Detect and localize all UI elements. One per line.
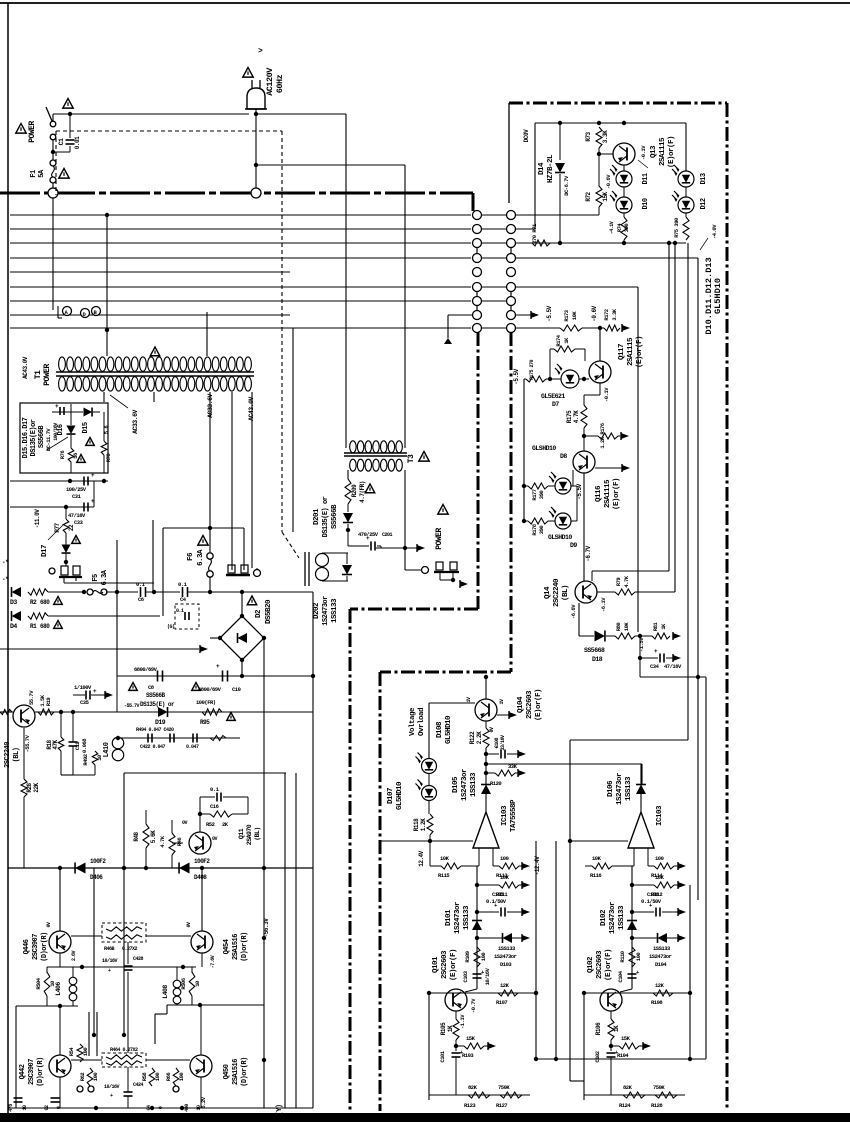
label Q11 2SA970 (BL) <box>238 824 261 845</box>
svg-text:(E)or(F): (E)or(F) <box>668 136 676 168</box>
power switch S1 <box>46 107 56 140</box>
svg-text:1V: 1V <box>466 697 472 703</box>
resistor R492 10 <box>73 751 98 775</box>
svg-text:-1.1V: -1.1V <box>459 1014 466 1029</box>
svg-text:R62: R62 <box>79 1073 86 1082</box>
warning triangle <box>243 68 253 78</box>
label R128 750K <box>651 1084 665 1109</box>
svg-text:D104: D104 <box>655 961 667 968</box>
wire bus row 3 link <box>482 242 506 244</box>
wire <box>648 862 686 870</box>
resistor R113 100 <box>499 863 519 869</box>
svg-text:0.1: 0.1 <box>176 608 184 614</box>
transistor Q101 <box>445 989 467 1011</box>
label R113 100 <box>496 855 509 879</box>
wire bridge right <box>262 638 266 1108</box>
label R58 100 <box>141 1072 161 1082</box>
svg-text:R81: R81 <box>652 622 659 632</box>
wire routing right <box>155 1003 264 1044</box>
leader D17 <box>48 525 63 540</box>
label D101 1S2473or 1SS133 <box>445 902 471 934</box>
label R104 15K <box>617 1035 631 1059</box>
svg-text:15K: 15K <box>602 191 609 201</box>
resistor R18 47K <box>58 712 64 775</box>
transistor Q14 <box>575 581 597 603</box>
wire choke <box>322 553 348 581</box>
svg-text:0.1: 0.1 <box>178 581 188 588</box>
wire <box>484 748 488 812</box>
svg-text:R110: R110 <box>619 951 626 962</box>
arrow <box>673 632 681 640</box>
svg-text:D202: D202 <box>313 602 321 619</box>
long wire x669 <box>668 243 670 571</box>
capacitor C103 <box>473 969 486 978</box>
svg-text:AC43.0V: AC43.0V <box>22 356 29 379</box>
svg-text:C105: C105 <box>492 891 504 898</box>
svg-text:100(FR): 100(FR) <box>196 699 216 706</box>
label R71 270 <box>531 223 538 244</box>
label C31 100/25V <box>66 486 87 500</box>
wire <box>516 207 599 215</box>
svg-text:1S2473or: 1S2473or <box>494 953 517 960</box>
label -0.6V <box>591 305 598 321</box>
svg-text:(D)or(R): (D)or(R) <box>41 932 49 962</box>
label 270 R175 <box>529 360 535 381</box>
svg-text:Q446: Q446 <box>23 939 31 954</box>
wire <box>476 980 478 989</box>
wire <box>516 314 531 316</box>
svg-text:C103: C103 <box>462 970 469 982</box>
wire spine2 top <box>640 764 642 812</box>
resistor R46 <box>169 833 175 855</box>
wire verticals <box>117 520 153 676</box>
circled terminal B <box>92 307 101 317</box>
wire left drop <box>516 123 535 229</box>
transistor Q11 <box>189 832 211 854</box>
wire Q101 base <box>0 0 1 1</box>
wire T1 tap AC43 <box>231 392 233 570</box>
label -4.0V <box>700 224 718 250</box>
svg-text:4.7K: 4.7K <box>623 575 630 587</box>
label C22 0.1 <box>167 608 184 630</box>
label R118 1.2K <box>413 818 427 831</box>
wire <box>620 980 632 992</box>
svg-text:6800/69V: 6800/69V <box>198 686 222 693</box>
label D4 <box>10 623 17 630</box>
svg-text:100: 100 <box>480 953 487 962</box>
svg-text:4.7K: 4.7K <box>159 835 166 847</box>
label R122 2.2K <box>469 731 483 744</box>
capacitor C108 <box>495 744 505 759</box>
connector posts T1 <box>226 565 250 575</box>
label R79 4.7K <box>615 575 630 587</box>
connector posts <box>59 566 82 581</box>
LED D107a <box>416 753 437 774</box>
wire row993b <box>582 991 692 995</box>
label bottom2 <box>146 1096 207 1112</box>
label R115 10K <box>438 855 450 879</box>
warning triangle <box>247 596 257 605</box>
wire Q101 collector <box>465 989 477 992</box>
label C10 6800/69V <box>198 686 241 693</box>
svg-text:750K: 750K <box>498 1084 510 1091</box>
svg-text:R494 0.047 C420: R494 0.047 C420 <box>136 727 174 733</box>
label Q101 2SC2603 (E)or(F) <box>432 949 458 981</box>
label DS5B20 <box>265 599 273 624</box>
label F1 5A <box>30 169 46 178</box>
transistor Q446 <box>49 931 71 953</box>
svg-text:10/16V: 10/16V <box>484 967 491 985</box>
label bottom <box>8 1104 62 1112</box>
label L410 <box>103 742 111 757</box>
wire <box>524 379 528 521</box>
transformer T3 secondary <box>350 459 403 471</box>
wire minus col <box>475 866 479 989</box>
crop mark <box>258 47 263 56</box>
label D107 GL5HD10 <box>387 781 404 810</box>
wire Q102 emitter <box>610 1011 612 1019</box>
svg-text:R109: R109 <box>464 951 471 962</box>
svg-text:R178: R178 <box>531 523 538 535</box>
capacitor C420 <box>148 734 152 743</box>
svg-text:R105: R105 <box>440 1022 447 1035</box>
wire <box>405 569 421 571</box>
bracket <box>58 306 62 318</box>
capacitor C22 <box>185 612 189 620</box>
resistor R209 <box>345 479 351 504</box>
svg-text:C19: C19 <box>74 742 81 751</box>
resistor R110 100 <box>629 947 635 967</box>
svg-text:47K: 47K <box>52 739 59 749</box>
svg-text:(BL): (BL) <box>13 747 21 762</box>
circled terminal A <box>63 307 72 317</box>
svg-text:0.1: 0.1 <box>136 581 146 588</box>
wire row993 <box>427 991 538 995</box>
wire <box>23 797 25 868</box>
svg-text:-1.5V: -1.5V <box>638 637 645 652</box>
capacitor C32 <box>55 403 64 415</box>
wire row <box>106 590 138 594</box>
svg-text:-*: -* <box>2 576 8 583</box>
node switch circle <box>48 188 58 198</box>
svg-text:1K: 1K <box>447 1025 454 1032</box>
capacitor C8 <box>158 671 163 682</box>
svg-text:478: 478 <box>8 1104 14 1112</box>
capacitor C33 <box>84 498 95 512</box>
svg-text:1/100V: 1/100V <box>74 684 92 691</box>
connector pin left row 7 <box>473 297 482 306</box>
wire <box>582 428 586 451</box>
wire bus row 2 <box>10 228 471 230</box>
svg-text:33K: 33K <box>508 763 518 770</box>
feedback wires <box>556 841 584 1081</box>
wire <box>348 546 381 548</box>
capacitor C201 <box>366 535 375 551</box>
resistor R175b 4.7K <box>581 405 587 428</box>
svg-text:100: 100 <box>154 1073 161 1082</box>
svg-text:R1: R1 <box>30 623 37 630</box>
label R109 100 <box>464 951 487 962</box>
connector pin right row 8 <box>507 311 516 320</box>
svg-text:2SA1516: 2SA1516 <box>232 1059 240 1085</box>
svg-text:22K: 22K <box>33 782 40 792</box>
transistor Q450 <box>190 1055 212 1077</box>
wire T1 tap F6 <box>209 392 211 528</box>
resistor R118 1.2K <box>427 814 433 835</box>
wire right rail <box>698 677 706 1059</box>
svg-text:IC103: IC103 <box>656 805 664 826</box>
wire Q1 <box>0 710 75 780</box>
svg-text:-12.4V: -12.4V <box>534 856 541 876</box>
svg-text:R173: R173 <box>563 309 570 321</box>
label 0V 1V <box>466 697 505 733</box>
svg-text:DC0V: DC0V <box>523 129 530 142</box>
resistor R127 750K <box>500 1092 522 1098</box>
svg-text:-56.3V: -56.3V <box>263 918 270 938</box>
label F6 6.3A <box>187 549 205 566</box>
wire routing left <box>16 1004 78 1108</box>
svg-text:0.047: 0.047 <box>186 744 199 750</box>
label C102 10/16V <box>594 1051 601 1062</box>
label Q104 2SC2603 (E)or(F) <box>517 689 543 721</box>
label -12.4V <box>534 856 541 876</box>
transformer T1 core <box>56 372 254 376</box>
svg-text:2SC3907: 2SC3907 <box>28 1059 36 1085</box>
wire row507 <box>10 481 94 509</box>
label C4 0.1 <box>178 581 188 603</box>
diode D101 <box>472 921 482 931</box>
box D15-D17 <box>20 403 108 473</box>
svg-text:1SS133: 1SS133 <box>498 945 516 952</box>
svg-text:1SS133: 1SS133 <box>625 776 633 801</box>
svg-text:(D)or(R): (D)or(R) <box>37 1057 45 1087</box>
label R173 10K <box>563 309 578 321</box>
wire row <box>48 590 86 594</box>
svg-text:04: 04 <box>146 1105 152 1111</box>
transistor Q454 <box>191 931 213 953</box>
label POWER <box>435 528 444 550</box>
warning triangle <box>54 621 63 629</box>
svg-text:-0.6V: -0.6V <box>591 305 598 321</box>
choke D202 <box>305 552 329 586</box>
svg-text:100: 100 <box>178 1073 185 1082</box>
svg-text:55.7V: 55.7V <box>28 690 35 705</box>
svg-text:Q11: Q11 <box>238 828 245 839</box>
label -0.1V <box>638 145 648 168</box>
label D406 100F2 <box>90 858 106 881</box>
svg-text:10: 10 <box>194 981 201 987</box>
capacitor C102 <box>607 1049 620 1057</box>
svg-text:-11.0V: -11.0V <box>34 509 41 529</box>
connector pin right row 3 <box>507 239 516 248</box>
capacitor C19 <box>61 712 78 775</box>
label R172 3.3K <box>603 308 618 320</box>
wire drop x53 <box>52 198 54 310</box>
label L406 <box>55 982 62 996</box>
svg-text:Q454: Q454 <box>223 939 231 954</box>
wire <box>477 934 530 942</box>
label C201 470/25V <box>358 531 393 538</box>
connector links <box>477 247 511 311</box>
label Q454 2SA1516 (D)or(R) <box>223 932 249 962</box>
svg-text:HZ7B-2L: HZ7B-2L <box>547 154 555 183</box>
svg-text:D8: D8 <box>560 453 567 460</box>
resistor R122 2.2K <box>483 728 489 748</box>
svg-text:GL5HD10: GL5HD10 <box>713 278 723 314</box>
svg-text:DS135(E) or: DS135(E) or <box>140 701 175 708</box>
resistor R71 270 <box>532 240 550 246</box>
svg-text:IC103: IC103 <box>501 805 509 826</box>
warning triangle <box>438 505 448 515</box>
label C32 100/16V <box>53 423 59 441</box>
svg-text:2SC2240: 2SC2240 <box>4 742 12 768</box>
wire <box>127 1067 129 1108</box>
label D2 <box>255 609 263 618</box>
resistor R81 1K <box>652 633 670 639</box>
label 55.7V <box>24 690 35 753</box>
svg-text:Q450: Q450 <box>223 1064 231 1079</box>
svg-text:D7: D7 <box>552 401 559 408</box>
svg-text:390: 390 <box>623 224 630 233</box>
transistor Q442 <box>49 1055 71 1077</box>
svg-text:DS135(E)or: DS135(E)or <box>30 419 38 456</box>
svg-text:0.01: 0.01 <box>74 136 81 149</box>
warning triangle <box>59 169 69 179</box>
resistor R80 10K <box>615 633 635 639</box>
svg-text:DC-6.7V: DC-6.7V <box>563 175 570 196</box>
boundary box left solid <box>508 103 510 203</box>
op-amp IC103b <box>628 812 654 848</box>
wire <box>585 865 634 867</box>
svg-text:R128: R128 <box>651 1102 663 1109</box>
label C104 10/16V <box>617 970 624 982</box>
svg-text:12K: 12K <box>655 982 665 989</box>
diode D408 <box>179 863 189 874</box>
svg-text:0V: 0V <box>182 820 188 826</box>
label D15 <box>82 422 90 433</box>
svg-text:02: 02 <box>44 1105 50 1111</box>
label IC103 <box>656 805 664 826</box>
svg-text:Q14: Q14 <box>544 586 552 599</box>
diode D406 <box>75 863 85 874</box>
svg-text:R174: R174 <box>555 334 562 346</box>
fuse F6 <box>207 528 213 592</box>
svg-text:D17: D17 <box>41 545 49 557</box>
label DC0V <box>523 129 530 142</box>
fuse F5 <box>87 589 107 595</box>
LED D10 <box>610 191 632 213</box>
svg-text:10K: 10K <box>655 874 665 881</box>
capacitor C35 <box>86 688 97 700</box>
svg-text:(BL): (BL) <box>254 827 261 841</box>
wire outputs <box>47 965 196 969</box>
svg-text:1S2473or: 1S2473or <box>616 773 624 805</box>
resistor R76 <box>68 448 74 473</box>
capacitor C16 <box>217 793 221 802</box>
label R66 100 <box>165 1073 185 1082</box>
warning triangle <box>365 484 375 493</box>
resistor R66 100 <box>173 1068 179 1086</box>
svg-text:D4: D4 <box>10 623 17 630</box>
bottom black bar <box>0 1113 850 1122</box>
label D7 GL5E621 <box>541 393 565 408</box>
svg-text:Ovrload: Ovrload <box>418 708 426 736</box>
wire <box>638 636 642 660</box>
resistor R73 3.3K <box>596 127 602 148</box>
resistor R506 10 <box>189 972 195 996</box>
svg-text:10K: 10K <box>440 855 450 862</box>
wire <box>477 908 530 916</box>
op-amp IC103a <box>473 812 499 848</box>
capacitor C10 <box>216 663 228 682</box>
svg-text:D408: D408 <box>194 874 207 881</box>
svg-text:R464 0.27X2: R464 0.27X2 <box>110 1047 138 1053</box>
label SS566B <box>38 425 46 449</box>
LED D12 <box>672 191 694 213</box>
label C35 1/100V <box>74 684 92 706</box>
wire T3 sec left <box>347 470 349 479</box>
label D201 DS135(E) or SS566B <box>313 496 339 537</box>
svg-text:2SC3907: 2SC3907 <box>32 934 40 960</box>
warning triangle <box>86 438 95 446</box>
wire bridge bottom <box>241 660 243 676</box>
wire <box>486 750 526 758</box>
svg-text:C104: C104 <box>617 970 624 982</box>
label -5.5V <box>576 483 583 499</box>
label R95 100(FR) <box>196 699 216 726</box>
svg-text:Q13: Q13 <box>650 145 658 158</box>
label C1 <box>58 136 81 149</box>
svg-text:100: 100 <box>82 1048 89 1057</box>
LED D9 <box>549 507 571 529</box>
box edges <box>429 841 538 1100</box>
wire bridge left <box>210 637 220 639</box>
connector pin left row 4 <box>473 254 482 263</box>
svg-text:R74: R74 <box>616 223 623 233</box>
svg-text:3.3K: 3.3K <box>611 308 618 320</box>
resistor R114 100 <box>654 863 674 869</box>
capacitor C105 <box>494 902 505 917</box>
svg-text:1SS133: 1SS133 <box>653 945 671 952</box>
capacitor C104 <box>628 969 641 978</box>
warning triangle <box>419 452 429 462</box>
svg-text:(E)or(F): (E)or(F) <box>450 949 458 981</box>
svg-text:D106: D106 <box>607 780 615 797</box>
label D3 <box>10 599 17 606</box>
capacitor C31 <box>84 472 95 486</box>
label D17 <box>41 545 49 557</box>
svg-text:R79: R79 <box>615 578 622 587</box>
wire drop x207 <box>206 312 208 356</box>
svg-text:0V: 0V <box>46 922 52 928</box>
label R78 5.6 <box>103 426 112 463</box>
svg-text:470/25V: 470/25V <box>358 531 379 538</box>
wire base row <box>71 935 191 937</box>
asterisk mark <box>2 559 8 583</box>
label R178 390 <box>531 523 545 535</box>
svg-text:D18: D18 <box>592 656 603 663</box>
wire bus row 9 link <box>482 327 506 329</box>
svg-text:0V: 0V <box>186 922 192 928</box>
svg-text:Q101: Q101 <box>432 956 440 973</box>
svg-text:R209: R209 <box>351 484 358 497</box>
fuse F1 <box>50 140 56 188</box>
long wire x688 <box>570 243 688 1081</box>
wire bottom rail <box>8 1106 313 1110</box>
resistor R112 10K <box>654 882 674 888</box>
wire F6 top <box>163 526 244 530</box>
wire down <box>640 658 706 679</box>
